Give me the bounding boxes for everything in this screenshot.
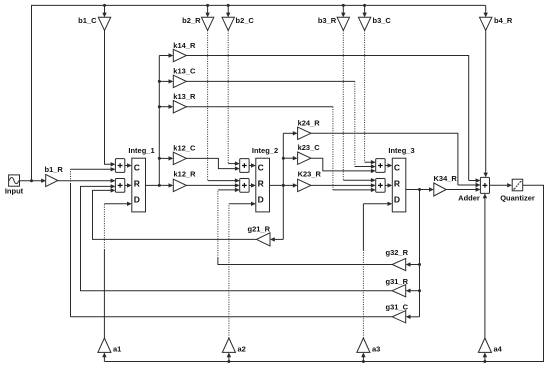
svg-text:k13_R: k13_R (173, 92, 196, 101)
svg-text:a4: a4 (494, 344, 503, 353)
svg-text:C: C (258, 162, 264, 172)
gain k24_R (right) (298, 127, 311, 139)
wire feedback stub up into a3 (362, 356, 364, 361)
gain b3_C (down) (358, 17, 370, 30)
integrator Integ_2 (256, 158, 270, 212)
wire g21_R output to sum1R input3 (93, 190, 257, 239)
svg-text:k12_C: k12_C (173, 144, 196, 153)
wire stub into gain b1_C (104, 5, 106, 13)
svg-text:D: D (394, 195, 400, 205)
gain g31_R (left) (392, 285, 406, 297)
svg-text:k14_R: k14_R (173, 41, 196, 50)
wire stage1 feed riser to k gains (158, 56, 160, 186)
wire Integ_3 R output to gain K34_R with junction (406, 189, 430, 191)
svg-text:Quantizer: Quantizer (500, 193, 535, 202)
svg-text:k24_R: k24_R (298, 118, 321, 127)
integrator Integ_3 (392, 158, 406, 212)
wire k23_C output to sum3C input3 (311, 158, 372, 171)
wire branch into gain g31_C (410, 316, 420, 318)
svg-text:b3_C: b3_C (373, 16, 392, 25)
gain b2_C (down) (222, 17, 234, 30)
wire a1 up to Integ_1 D port (103, 250, 105, 338)
wire stub into gain b2_R (207, 5, 209, 13)
wire branch into gain k13_C (159, 80, 169, 82)
sum block stage2 C (two inputs) (240, 159, 249, 173)
wire sum1C to Integ_1 C port (125, 165, 128, 167)
wire b1_R to sum1R input1 (58, 180, 112, 182)
wire a2 up to Integ_2 D port (228, 204, 230, 338)
svg-text:g31_C: g31_C (386, 302, 409, 311)
svg-text:g31_R: g31_R (386, 277, 409, 286)
wire stub into gain b3_C (364, 5, 366, 13)
wire feedback stub up into a2 (228, 356, 230, 361)
svg-text:R: R (134, 178, 140, 188)
integrator Integ_1 (132, 158, 146, 212)
gain g31_C (left) (392, 311, 406, 323)
svg-text:b2_C: b2_C (236, 16, 255, 25)
wire sum3C to Integ_3 C port (385, 165, 388, 167)
svg-text:b3_R: b3_R (318, 16, 337, 25)
svg-text:Integ_1: Integ_1 (128, 146, 154, 155)
svg-text:b4_R: b4_R (494, 16, 513, 25)
svg-text:Integ_2: Integ_2 (252, 146, 278, 155)
svg-text:b1_R: b1_R (45, 165, 64, 174)
sum block stage1 C (two inputs) (115, 159, 124, 173)
wire Quantizer output feedback: right edge down and bottom bus (104, 185, 543, 361)
gain b3_R (down) (337, 17, 349, 30)
wire k12_C output to sum2C input2 (186, 158, 235, 168)
wire Input to gain b1_R with branch node (19, 180, 42, 182)
wire Integ_2 R output to gain K23_R with junction (270, 184, 294, 186)
svg-text:k13_C: k13_C (173, 66, 196, 75)
wire a4 up to Adder bottom (484, 197, 486, 338)
svg-text:a2: a2 (238, 344, 246, 353)
wire branch into gain k12_C (159, 157, 169, 159)
sum block stage2 R (three inputs) (240, 179, 249, 193)
wire k12_R output to sum2R input2 (186, 184, 235, 186)
gain a3 (up) (357, 338, 370, 352)
wire k13_R output to sum3R input3 (186, 106, 333, 108)
wire Integ_1 R output to gain k12_R with junction (146, 184, 170, 186)
gain k14_R (right) (173, 49, 186, 61)
svg-text:R: R (258, 178, 264, 188)
wire branch into gain k24_R (283, 132, 293, 134)
svg-text:R: R (394, 178, 400, 188)
wire branch into gain k14_R (159, 55, 169, 57)
wire stub into gain b3_R (342, 5, 344, 13)
gain g32_R (left) (392, 258, 406, 270)
wire g32_R output to sum2R input3 (218, 258, 392, 265)
svg-text:C: C (394, 162, 400, 172)
gain g21_R (left) (256, 233, 270, 246)
svg-text:K23_R: K23_R (298, 170, 322, 179)
gain b4_R (down) (480, 17, 492, 30)
gain k12_R (right) (173, 179, 186, 191)
gain K34_R (right) (434, 183, 446, 196)
wire b1_C down into sum1C input1 (105, 30, 112, 164)
svg-text:Adder: Adder (458, 193, 480, 202)
wire sum1R to Integ_1 R port (125, 184, 128, 186)
wire branch into gain g32_R (410, 264, 420, 266)
gain a2 (up) (222, 338, 235, 352)
wire stub into gain b4_R (485, 5, 487, 13)
svg-text:g21_R: g21_R (247, 224, 270, 233)
gain k13_C (right) (173, 75, 186, 87)
wire branch into gain g31_R (410, 290, 420, 292)
wire K34_R output to Adder input (446, 189, 476, 191)
wire stage2 feed riser to k gains (282, 133, 284, 185)
svg-text:g32_R: g32_R (386, 248, 409, 257)
block Quantizer (512, 179, 523, 191)
gain k13_R (right) (173, 101, 186, 113)
gain b2_R (down) (201, 17, 213, 30)
sum block stage3 R (three inputs) (376, 179, 385, 193)
svg-text:a1: a1 (113, 344, 121, 353)
wire k24_R output to Adder input (mid route) (311, 133, 458, 185)
wire b2_C down into sum2C input1 (227, 30, 229, 163)
gain k23_C (right) (298, 152, 311, 164)
svg-text:K34_R: K34_R (434, 174, 458, 183)
wire k14_R output to Adder input (top route) (186, 56, 468, 181)
wire b3_R down into sum3R input1 (342, 30, 344, 180)
wire k13_C output to sum3C input2 (186, 80, 354, 82)
gain K23_R (right) (298, 179, 311, 191)
wire feedback stub up into a1 (103, 356, 105, 361)
svg-text:D: D (258, 195, 264, 205)
wire b3_C down into sum3C input1 (364, 30, 366, 162)
wire b4_R down into Adder top (485, 30, 487, 173)
wire stub into gain b2_C (227, 5, 229, 13)
wire branch into gain k13_R (159, 106, 169, 108)
wire a3 up to Integ_3 D port (362, 250, 364, 338)
wire feedback stub up into a4 (484, 356, 486, 361)
gain a4 (up) (478, 338, 491, 352)
svg-text:Integ_3: Integ_3 (388, 146, 414, 155)
wire stage2 drop to resonator gain g21_R (282, 185, 284, 239)
wire sum3R to Integ_3 R port (385, 184, 388, 186)
svg-text:D: D (134, 195, 140, 205)
gain b1_C (down) (98, 17, 110, 30)
gain k12_C (right) (173, 152, 186, 164)
wire Adder to Quantizer (490, 184, 509, 186)
gain b1_R (right) (46, 174, 58, 186)
wire K23_R output to sum3R input2 (311, 184, 372, 186)
wire sum2R to Integ_2 R port (249, 184, 252, 186)
wire sum2C to Integ_2 C port (249, 165, 252, 167)
sum block Adder (480, 177, 489, 193)
svg-text:k23_C: k23_C (298, 143, 321, 152)
svg-text:k12_R: k12_R (174, 170, 197, 179)
wire branch into gain k23_C (283, 157, 293, 159)
svg-text:C: C (134, 162, 140, 172)
block Input (sine source) (9, 175, 20, 186)
sum block stage3 C (three inputs) (376, 159, 385, 173)
wire g31_R output to sum1R input2 (81, 186, 393, 290)
svg-text:b1_C: b1_C (78, 16, 97, 25)
svg-text:Input: Input (5, 186, 24, 195)
wire b2_R down into sum2R input1 (207, 30, 209, 180)
gain a1 (up) (98, 338, 111, 352)
svg-text:b2_R: b2_R (182, 16, 201, 25)
wire g31_C output to sum1C input2 (71, 316, 393, 318)
svg-text:a3: a3 (372, 344, 380, 353)
sum block stage1 R (three inputs) (115, 179, 124, 193)
wire stage3 drop to resonator gains (419, 190, 421, 317)
wire input branch up and top distribution bus to b4_R (32, 5, 486, 180)
